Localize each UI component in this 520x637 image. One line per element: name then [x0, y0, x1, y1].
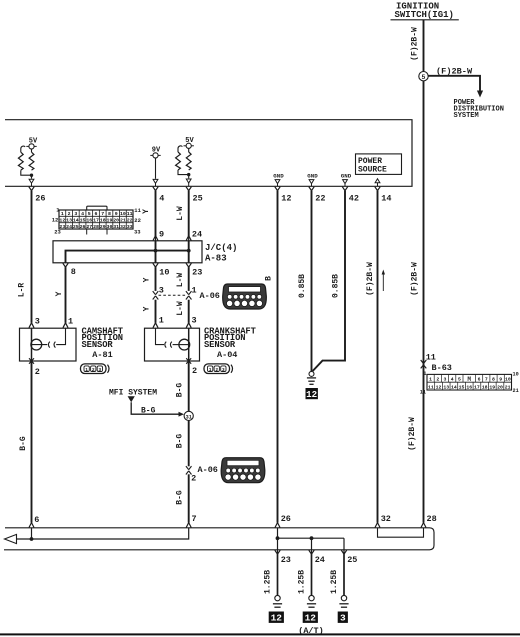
svg-text:42: 42 [349, 193, 359, 203]
svg-text:1.25B: 1.25B [298, 570, 307, 594]
svg-text:1: 1 [209, 367, 212, 373]
svg-text:0.85B: 0.85B [332, 274, 341, 298]
svg-text:5: 5 [458, 377, 461, 383]
bus pin 26 [275, 514, 291, 528]
camshaft pin 1 terminal [63, 317, 73, 328]
svg-text:B-G: B-G [176, 490, 185, 505]
svg-text:A-83: A-83 [205, 253, 227, 263]
wire splice to A-06 (B-G) [176, 421, 189, 467]
svg-text:J/C(4): J/C(4) [205, 243, 237, 253]
svg-text:13: 13 [443, 385, 449, 391]
wire J/C 23 to A-06 (L-W) [176, 267, 197, 295]
svg-text:(F)2B-W: (F)2B-W [436, 66, 473, 76]
svg-text:12: 12 [281, 193, 291, 203]
ground wire pin 24 (1.25B) to ground 12 [298, 550, 325, 607]
J/C pin 23 [186, 263, 202, 277]
svg-text:L-R: L-R [18, 283, 27, 298]
svg-text:L-W: L-W [176, 273, 185, 288]
svg-text:12: 12 [436, 385, 442, 391]
connector A-06 drawing (upper) [223, 284, 267, 309]
svg-text:SWITCH(IG1): SWITCH(IG1) [395, 10, 454, 20]
ECU pin 26 [29, 187, 46, 204]
svg-text:24: 24 [66, 224, 72, 230]
crankshaft connector icon 123 [204, 364, 233, 374]
svg-text:A-81: A-81 [92, 350, 112, 360]
svg-text:3: 3 [444, 377, 447, 383]
svg-text:1: 1 [159, 315, 164, 325]
wire J/C 10 to A-06 (Y) [143, 267, 164, 295]
connector C (33-pin) pinout [52, 206, 142, 235]
svg-text:14: 14 [381, 193, 391, 203]
svg-text:GND: GND [341, 173, 352, 180]
wire splice 5 to bus pin 28 ((F)2B-W) [408, 81, 424, 523]
svg-text:3: 3 [35, 317, 40, 327]
svg-text:33: 33 [127, 224, 133, 230]
ground bus pin 6 [29, 515, 39, 528]
wire pin 26 to camshaft sensor (L-R) [18, 191, 32, 323]
svg-text:18: 18 [482, 385, 488, 391]
svg-text:30: 30 [107, 224, 113, 230]
splice 5 [419, 72, 428, 82]
svg-text:SOURCE: SOURCE [358, 165, 387, 174]
J/C label [205, 243, 237, 264]
svg-text:1: 1 [423, 371, 426, 377]
svg-text:B-G: B-G [176, 383, 185, 398]
power distribution system label [454, 99, 504, 120]
resistor left-A [18, 146, 25, 170]
svg-text:26: 26 [35, 193, 45, 203]
wire A-06 to crankshaft pin 1 (Y) [143, 300, 164, 326]
bus internal ground wire left (to other page) [5, 528, 189, 544]
ground wire pin 25 (1.25B) to ground 3 [330, 550, 357, 607]
svg-text:10: 10 [513, 371, 519, 377]
svg-text:1.25B: 1.25B [330, 570, 339, 594]
wire ignition switch to splice (F)2B-W [411, 20, 424, 72]
svg-text:17: 17 [474, 385, 480, 391]
svg-text:23: 23 [192, 267, 202, 277]
svg-text:20: 20 [497, 385, 503, 391]
crankshaft sensor labels [204, 326, 257, 359]
svg-text:23: 23 [54, 228, 61, 235]
MFI system label [109, 389, 157, 403]
ECU pin 25 [186, 187, 203, 204]
svg-text:22: 22 [315, 193, 325, 203]
svg-text:(F)2B-W: (F)2B-W [411, 27, 420, 61]
J/C pin 8 [63, 263, 76, 277]
svg-text:27: 27 [86, 224, 92, 230]
svg-text:25: 25 [73, 224, 79, 230]
ground GND (ECU internal) [341, 173, 352, 187]
svg-text:M: M [467, 376, 471, 383]
ground ref box 3 [338, 612, 348, 623]
ECU pin 42 [342, 187, 359, 204]
ground GND (ECU internal) [273, 173, 284, 187]
svg-text:24: 24 [315, 555, 325, 565]
junction left 5V [21, 170, 34, 186]
svg-text:1: 1 [192, 286, 197, 296]
svg-text:7: 7 [485, 377, 488, 383]
camshaft sensor labels [82, 326, 124, 359]
svg-text:2: 2 [215, 367, 218, 373]
svg-text:Y: Y [143, 277, 152, 282]
svg-text:11: 11 [134, 207, 141, 214]
resistor right-B [186, 152, 191, 170]
svg-text:15: 15 [459, 385, 465, 391]
wire pin 25 to J/C (L-W) [176, 191, 189, 236]
crankshaft pin 1 terminal [153, 323, 158, 328]
ECU pin 12 [275, 187, 292, 204]
svg-text:(F)2B-W: (F)2B-W [366, 262, 375, 296]
crankshaft position sensor box A-04 [145, 328, 200, 361]
svg-text:SENSOR: SENSOR [204, 340, 236, 350]
J/C pin 9 terminal [153, 229, 164, 241]
junction right 5V [178, 170, 191, 186]
svg-text:16: 16 [466, 385, 472, 391]
power source box [356, 154, 402, 186]
wire A-06 to ground bus pin 7 (B-G) [176, 474, 189, 522]
wire MFI system to splice (B-G) [131, 402, 184, 416]
camshaft sensor internals [31, 328, 66, 361]
connector B-63 drawing (21-pin) [420, 371, 519, 395]
bus pin 28 [421, 514, 437, 528]
connector A-06 crossing (dashed pair) [153, 291, 220, 301]
crankshaft sensor internals [156, 328, 190, 361]
svg-text:2: 2 [35, 367, 40, 377]
svg-text:9: 9 [159, 229, 164, 239]
J/C pin 24 terminal [186, 229, 202, 241]
svg-text:A-06: A-06 [198, 465, 218, 475]
resistor right-A [176, 146, 183, 170]
ground wire pin 23 (1.25B) to ground 12 [264, 550, 291, 607]
svg-text:26: 26 [80, 224, 86, 230]
svg-text:12: 12 [305, 613, 317, 624]
svg-text:B-G: B-G [19, 436, 28, 451]
svg-text:11: 11 [420, 389, 426, 395]
ECU box (open at left) [5, 120, 412, 187]
9V supply [150, 147, 161, 187]
camshaft connector icon 123 [81, 364, 110, 374]
svg-text:11: 11 [426, 353, 436, 363]
wire crankshaft pin 2 to splice (B-G) [176, 361, 189, 411]
svg-text:28: 28 [93, 224, 99, 230]
wire pin 14 to bus pin 32 ((F)2B-W) [366, 191, 385, 523]
svg-text:B-63: B-63 [432, 363, 452, 373]
svg-text:11: 11 [428, 385, 434, 391]
svg-text:2: 2 [436, 377, 439, 383]
svg-text:Y: Y [143, 306, 152, 311]
bus internal wire right (pins 26/32/28 to grounds) [276, 528, 344, 555]
bus pin 32 [375, 514, 391, 528]
svg-text:3: 3 [222, 367, 225, 373]
ground GND (ECU internal) [307, 173, 318, 187]
crankshaft pin 3 terminal [186, 323, 191, 328]
svg-text:1: 1 [68, 317, 73, 327]
connector A-06 crossing (lower) [186, 465, 218, 483]
ground ref box 12 [303, 612, 318, 623]
svg-text:A-06: A-06 [200, 291, 220, 301]
ground bus pin 7 [186, 514, 196, 528]
svg-text:SENSOR: SENSOR [82, 340, 114, 350]
svg-text:Y: Y [142, 209, 151, 214]
camshaft position sensor box A-81 [20, 328, 77, 361]
svg-text:29: 29 [100, 224, 106, 230]
svg-text:GND: GND [307, 173, 318, 180]
ground bus band [4, 528, 434, 550]
svg-text:1: 1 [85, 367, 88, 373]
svg-text:B-G: B-G [141, 407, 156, 416]
ECU pin 14 [375, 187, 392, 204]
wire pin 42 to ground (0.85B) [313, 191, 345, 371]
svg-text:4: 4 [159, 193, 164, 203]
ECU pin 22 [309, 187, 326, 204]
svg-text:4: 4 [451, 377, 454, 383]
svg-text:12: 12 [271, 613, 283, 624]
ground ref box 12 (upper) [306, 388, 318, 399]
ground terminal 12 (upper) [307, 371, 316, 384]
svg-text:21: 21 [505, 385, 511, 391]
connector B-63 crossing pin 11 [421, 353, 452, 373]
svg-text:12: 12 [52, 217, 59, 224]
svg-text:Y: Y [55, 291, 64, 296]
svg-text:12: 12 [306, 389, 317, 400]
svg-text:31: 31 [186, 415, 192, 421]
5V supply right [184, 137, 195, 152]
svg-text:3: 3 [159, 286, 164, 296]
svg-text:(F)2B-W: (F)2B-W [408, 417, 417, 451]
svg-text:32: 32 [381, 514, 391, 524]
wire camshaft pin 2 to ground bus pin 6 (B-G) [19, 361, 32, 523]
svg-text:3: 3 [192, 315, 197, 325]
wire A-06 to crankshaft pin 3 (L-W) [176, 300, 197, 326]
svg-text:23: 23 [281, 555, 291, 565]
svg-text:26: 26 [281, 514, 291, 524]
J/C internal bus [66, 241, 191, 263]
svg-text:1.25B: 1.25B [264, 570, 273, 594]
svg-text:2: 2 [191, 474, 196, 484]
svg-text:22: 22 [134, 217, 141, 224]
svg-text:A-04: A-04 [217, 350, 237, 360]
junction connector J/C(4) A-83 box [53, 241, 202, 263]
svg-text:21: 21 [513, 388, 519, 394]
bottom frame line [0, 633, 520, 635]
svg-text:7: 7 [192, 514, 197, 524]
svg-text:14: 14 [451, 385, 457, 391]
svg-text:25: 25 [347, 555, 357, 565]
svg-text:33: 33 [134, 229, 141, 236]
wire pin 4 to J/C (Y) [142, 191, 156, 236]
svg-text:19: 19 [489, 385, 495, 391]
svg-text:SYSTEM: SYSTEM [454, 112, 479, 120]
svg-text:3: 3 [98, 367, 101, 373]
wire pin 22 to ground (0.85B) [298, 191, 312, 372]
resistor left-B [29, 152, 34, 170]
5V supply left [26, 138, 38, 153]
svg-text:6: 6 [478, 377, 481, 383]
svg-text:2: 2 [192, 366, 197, 376]
svg-text:6: 6 [34, 515, 39, 525]
J/C pin 10 [153, 263, 170, 277]
ignition switch (IG1) label [391, 2, 459, 21]
ECU pin 4 [153, 187, 165, 204]
wire splice to power distribution system [428, 66, 483, 97]
svg-text:5: 5 [422, 74, 426, 81]
svg-text:28: 28 [427, 514, 437, 524]
svg-text:GND: GND [273, 173, 284, 180]
svg-text:8: 8 [71, 267, 76, 277]
svg-text:9: 9 [499, 377, 502, 383]
svg-text:3: 3 [340, 613, 346, 624]
wire pin 12 to bus pin 26 (B) [265, 191, 278, 523]
svg-text:10: 10 [159, 267, 169, 277]
crankshaft pin 2 [186, 358, 197, 376]
svg-text:31: 31 [113, 224, 119, 230]
svg-text:8: 8 [492, 377, 495, 383]
svg-text:0.85B: 0.85B [298, 274, 307, 298]
svg-text:25: 25 [193, 193, 203, 203]
ground ref box 12 [269, 612, 284, 623]
svg-text:24: 24 [192, 229, 202, 239]
wire J/C 8 to camshaft pin 1 (Y) [55, 267, 66, 323]
svg-text:B: B [265, 276, 274, 281]
camshaft pin 2 [29, 358, 40, 377]
svg-text:32: 32 [120, 224, 126, 230]
svg-text:2: 2 [92, 367, 95, 373]
svg-text:(F)2B-W: (F)2B-W [411, 262, 420, 296]
svg-text:1: 1 [429, 377, 432, 383]
splice 31 [184, 411, 193, 420]
svg-text:10: 10 [505, 377, 511, 383]
svg-text:L-W: L-W [176, 301, 185, 316]
bus internal jog joining pins 32 and 28 [378, 528, 424, 537]
connector A-06 drawing (lower) [221, 458, 265, 483]
svg-text:L-W: L-W [176, 206, 185, 221]
camshaft pin 3 terminal [29, 317, 40, 328]
svg-text:B-G: B-G [176, 434, 185, 449]
